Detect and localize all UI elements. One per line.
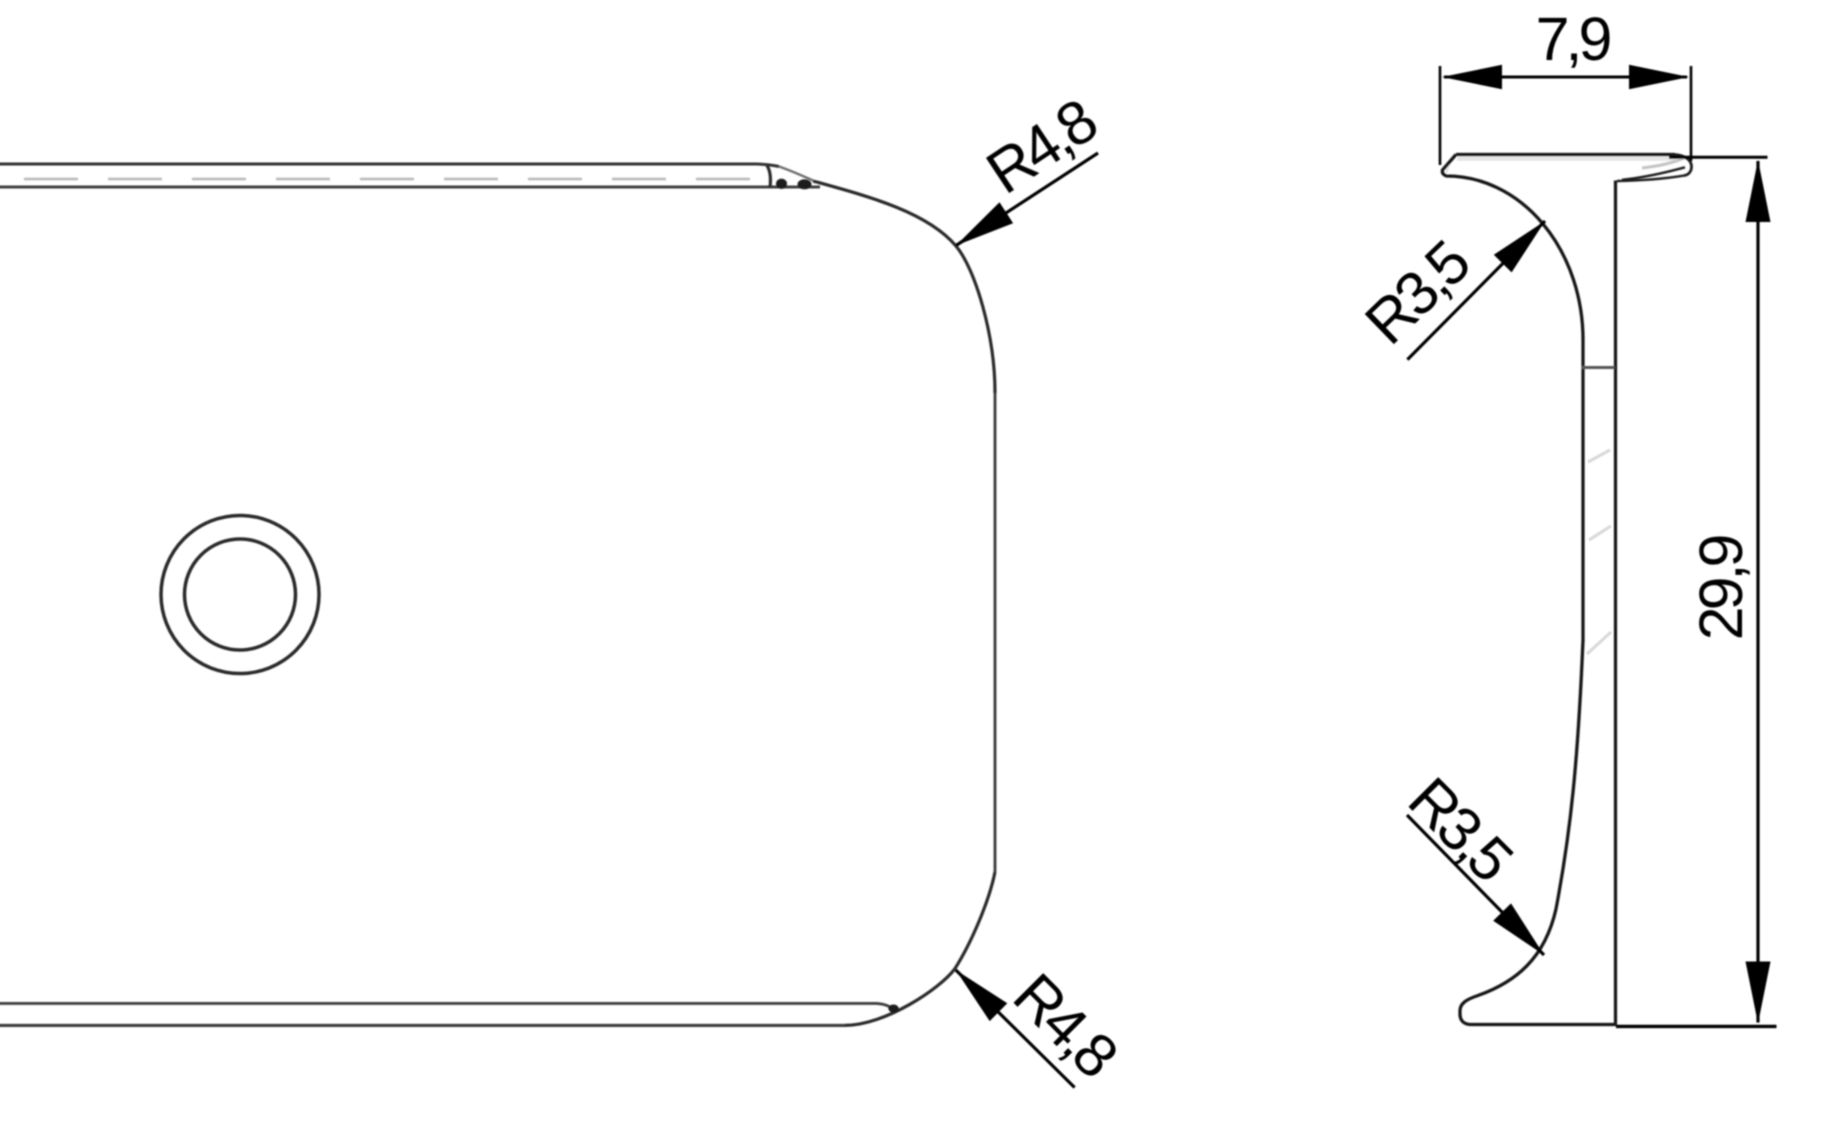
dimension 29,9 line and arrows [1687,160,1771,1024]
front view top inner edge line [0,186,820,189]
front view right edge [994,393,997,872]
dimension 7,9 line and arrows [1442,5,1689,89]
radius leader R3,5 bottom [1396,764,1544,955]
hidden dashed line (top fold) [24,178,752,181]
radius leader R4,8 top [956,87,1108,246]
dimension 29,9 extension lines [1616,157,1777,1026]
profile top edge [1456,155,1675,161]
profile outline: beak, concave face, stem, bottom curve, foot, bottom edge [1442,155,1616,1025]
profile tangent tick on stem [1582,366,1616,369]
svg-text:7,9: 7,9 [1536,5,1611,73]
front view bottom inner edge line [0,1003,899,1012]
dimension 7,9 extension lines [1440,66,1691,165]
front view bottom-right corner radius curve [845,872,995,1025]
mounting hole inner circle [185,539,296,650]
front view top outer edge line [0,164,779,167]
profile top-right lip curl [1617,155,1692,182]
profile faint surface marks [1587,450,1611,654]
radius leader R4,8 bottom [956,960,1130,1089]
front view bottom outer edge line [0,1024,845,1027]
profile left beak shading [1444,157,1455,175]
svg-text:29,9: 29,9 [1687,536,1755,641]
mounting hole outer circle [161,516,319,674]
top edge end curl [767,166,813,190]
radius leader R3,5 top [1352,221,1545,360]
profile stem right edge [1614,181,1617,1025]
front view top-right corner radius curve [813,181,995,393]
